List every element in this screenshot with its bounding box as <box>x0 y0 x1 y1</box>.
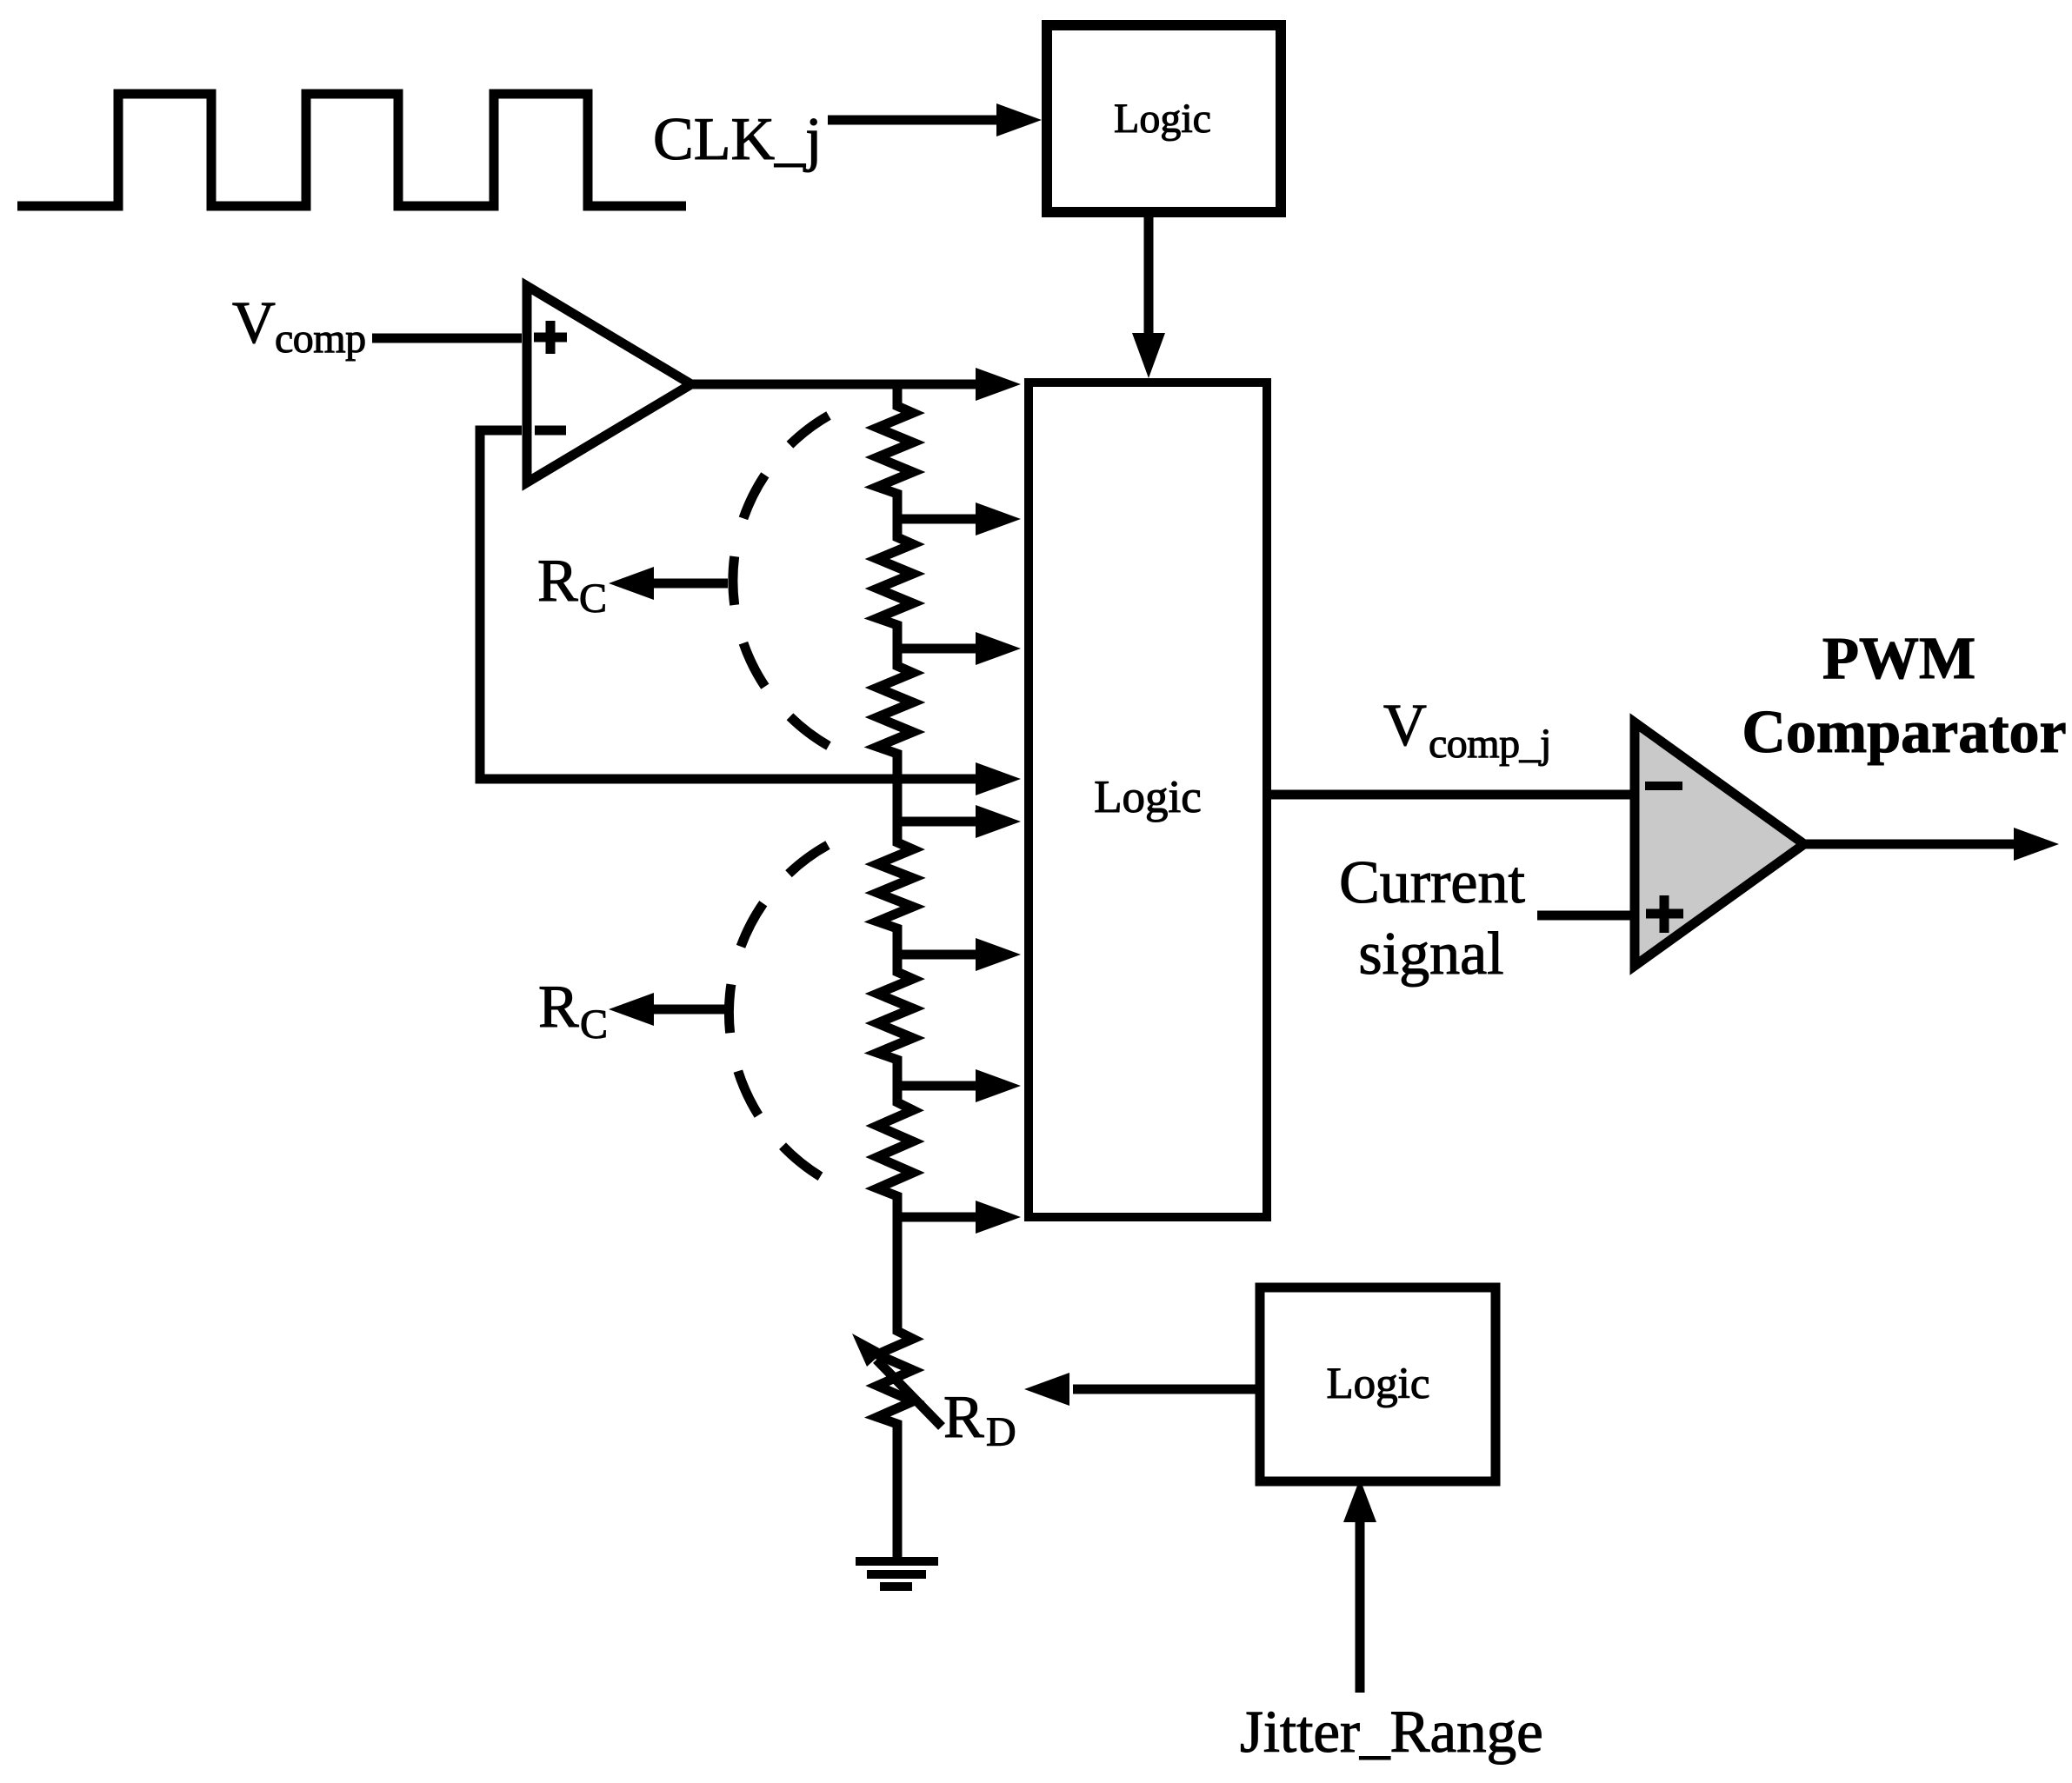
svg-text:Comparator: Comparator <box>1742 699 2066 766</box>
svg-text:V: V <box>1383 692 1427 758</box>
svg-text:comp_j: comp_j <box>1429 721 1551 767</box>
svg-text:Logic: Logic <box>1094 772 1202 822</box>
svg-text:C: C <box>579 575 607 622</box>
svg-text:R: R <box>537 548 578 615</box>
svg-text:Logic: Logic <box>1114 96 1211 142</box>
svg-text:signal: signal <box>1358 921 1503 988</box>
svg-text:Current: Current <box>1339 849 1525 916</box>
svg-text:C: C <box>580 1001 608 1048</box>
svg-text:R: R <box>538 974 579 1041</box>
svg-text:comp: comp <box>275 316 366 362</box>
svg-text:CLK_j: CLK_j <box>653 106 822 173</box>
svg-text:R: R <box>943 1384 984 1451</box>
svg-text:PWM: PWM <box>1822 625 1975 691</box>
svg-text:D: D <box>986 1409 1016 1455</box>
svg-text:Logic: Logic <box>1327 1360 1430 1408</box>
svg-text:V: V <box>232 289 276 356</box>
svg-text:Jitter_Range: Jitter_Range <box>1240 1699 1543 1765</box>
